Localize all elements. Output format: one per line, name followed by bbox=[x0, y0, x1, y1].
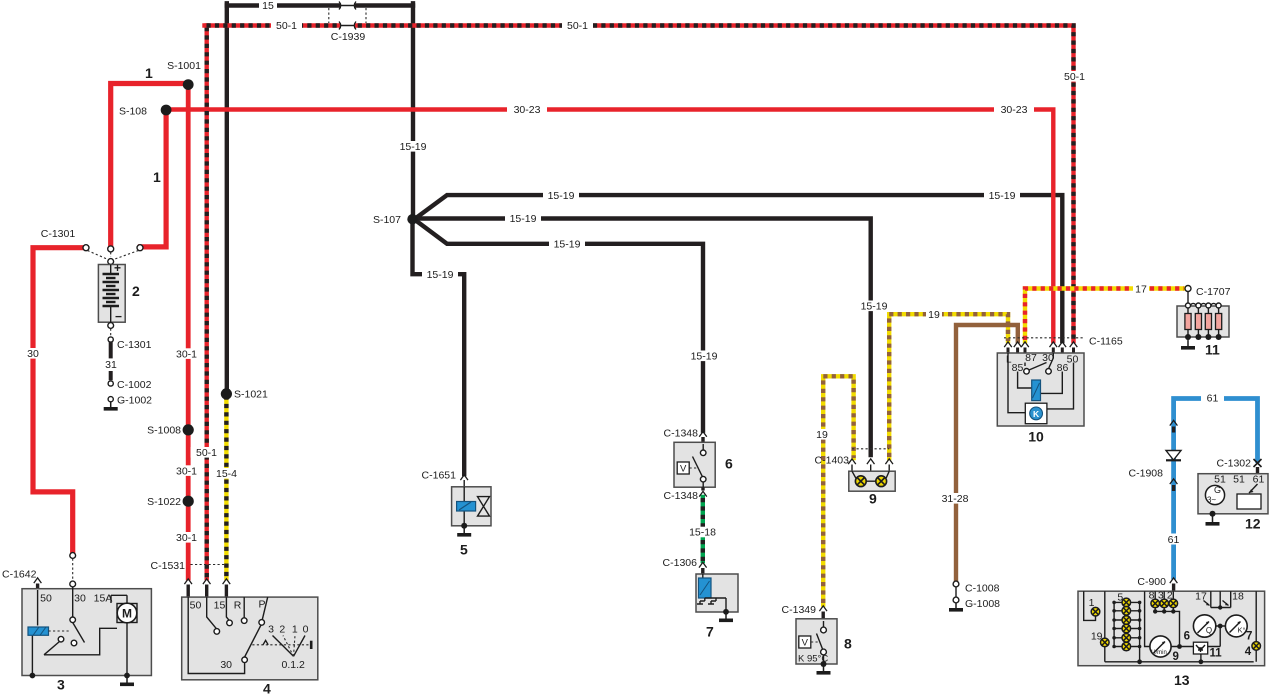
svg-text:C-1348: C-1348 bbox=[664, 428, 699, 440]
svg-text:C-1707: C-1707 bbox=[1196, 286, 1231, 298]
svg-text:S-1001: S-1001 bbox=[167, 60, 201, 72]
svg-text:30: 30 bbox=[74, 593, 86, 605]
svg-text:G: G bbox=[1214, 485, 1221, 495]
svg-text:G-1002: G-1002 bbox=[117, 395, 152, 407]
svg-text:C-1165: C-1165 bbox=[1089, 336, 1123, 348]
svg-text:13: 13 bbox=[1174, 672, 1190, 688]
svg-text:1: 1 bbox=[1089, 597, 1095, 609]
svg-text:S-1022: S-1022 bbox=[147, 496, 181, 508]
svg-text:C-1348: C-1348 bbox=[664, 490, 699, 502]
svg-text:3: 3 bbox=[1158, 589, 1164, 601]
svg-text:V: V bbox=[802, 638, 809, 649]
svg-text:11: 11 bbox=[1205, 342, 1220, 358]
svg-text:6: 6 bbox=[725, 456, 733, 472]
svg-text:K°: K° bbox=[1237, 626, 1245, 635]
svg-text:4: 4 bbox=[1245, 646, 1252, 658]
svg-text:8: 8 bbox=[844, 636, 852, 652]
svg-text:30: 30 bbox=[1042, 352, 1054, 364]
svg-text:C-1349: C-1349 bbox=[782, 604, 817, 616]
svg-text:C-1531: C-1531 bbox=[151, 560, 186, 572]
svg-text:6: 6 bbox=[1184, 631, 1190, 643]
svg-text:15-4: 15-4 bbox=[216, 468, 237, 480]
svg-text:18: 18 bbox=[1232, 591, 1244, 603]
svg-text:50-1: 50-1 bbox=[276, 20, 297, 32]
svg-text:Q: Q bbox=[1206, 626, 1212, 635]
svg-text:50: 50 bbox=[190, 600, 202, 612]
svg-text:C-1002: C-1002 bbox=[117, 379, 152, 391]
svg-text:0.1.2: 0.1.2 bbox=[282, 659, 306, 671]
svg-text:15-18: 15-18 bbox=[689, 527, 716, 539]
svg-text:30-1: 30-1 bbox=[176, 348, 197, 360]
svg-text:19: 19 bbox=[816, 429, 828, 441]
svg-text:15-19: 15-19 bbox=[691, 351, 718, 363]
svg-text:61: 61 bbox=[1207, 393, 1219, 405]
svg-text:15A: 15A bbox=[94, 593, 113, 605]
svg-text:1: 1 bbox=[292, 624, 298, 636]
svg-text:9: 9 bbox=[869, 491, 877, 507]
svg-text:11: 11 bbox=[1210, 648, 1223, 660]
svg-text:1: 1 bbox=[145, 65, 153, 81]
svg-text:15-19: 15-19 bbox=[510, 213, 537, 225]
svg-text:S-1021: S-1021 bbox=[234, 389, 268, 401]
svg-text:2: 2 bbox=[279, 624, 285, 636]
svg-text:15: 15 bbox=[214, 600, 226, 612]
svg-text:15-19: 15-19 bbox=[427, 269, 454, 281]
svg-text:9: 9 bbox=[1173, 651, 1179, 663]
svg-text:C-1403: C-1403 bbox=[815, 455, 850, 467]
svg-text:87: 87 bbox=[1025, 352, 1037, 364]
svg-text:C-1302: C-1302 bbox=[1217, 458, 1252, 470]
svg-text:51: 51 bbox=[1233, 474, 1245, 486]
svg-text:17: 17 bbox=[1135, 283, 1147, 295]
svg-text:C-1642: C-1642 bbox=[2, 569, 37, 581]
svg-text:30: 30 bbox=[220, 659, 232, 671]
svg-text:19: 19 bbox=[1091, 631, 1103, 643]
svg-text:1: 1 bbox=[153, 169, 161, 185]
svg-text:C-1651: C-1651 bbox=[422, 470, 457, 482]
svg-text:15: 15 bbox=[262, 0, 274, 12]
svg-text:2: 2 bbox=[1167, 589, 1173, 601]
svg-text:15-19: 15-19 bbox=[554, 239, 581, 251]
svg-text:2: 2 bbox=[132, 283, 140, 299]
svg-text:30-1: 30-1 bbox=[176, 532, 197, 544]
svg-text:15-19: 15-19 bbox=[400, 141, 427, 153]
svg-text:30: 30 bbox=[27, 348, 39, 360]
svg-text:R: R bbox=[234, 600, 242, 612]
svg-text:12: 12 bbox=[1245, 516, 1261, 532]
svg-text:50-1: 50-1 bbox=[196, 447, 217, 459]
svg-text:V: V bbox=[680, 464, 687, 475]
svg-text:C-1008: C-1008 bbox=[965, 583, 1000, 595]
svg-text:K: K bbox=[1033, 409, 1040, 419]
svg-text:30-23: 30-23 bbox=[514, 104, 541, 116]
svg-text:15-19: 15-19 bbox=[989, 190, 1016, 202]
svg-text:31-28: 31-28 bbox=[942, 493, 969, 505]
svg-text:C-1301: C-1301 bbox=[41, 228, 76, 240]
svg-text:S-1008: S-1008 bbox=[147, 425, 181, 437]
svg-text:C-1908: C-1908 bbox=[1129, 468, 1164, 480]
svg-text:61: 61 bbox=[1253, 474, 1265, 486]
svg-text:S-108: S-108 bbox=[119, 106, 147, 118]
svg-text:3~: 3~ bbox=[1207, 496, 1216, 505]
svg-text:10: 10 bbox=[1028, 429, 1044, 445]
svg-text:7: 7 bbox=[706, 624, 714, 640]
svg-text:0: 0 bbox=[303, 624, 309, 636]
svg-text:G-1008: G-1008 bbox=[965, 598, 1000, 610]
svg-text:50-1: 50-1 bbox=[567, 20, 588, 32]
svg-text:−: − bbox=[115, 310, 122, 324]
svg-text:50: 50 bbox=[1067, 354, 1079, 366]
svg-text:15-19: 15-19 bbox=[861, 301, 888, 313]
svg-text:M: M bbox=[122, 607, 132, 621]
svg-text:8: 8 bbox=[1149, 589, 1155, 601]
svg-text:7: 7 bbox=[1246, 631, 1252, 643]
svg-text:50-1: 50-1 bbox=[1064, 71, 1085, 83]
svg-text:S-107: S-107 bbox=[373, 214, 401, 226]
svg-text:C-900: C-900 bbox=[1137, 576, 1166, 588]
svg-text:U/min: U/min bbox=[1151, 650, 1167, 656]
svg-text:5: 5 bbox=[460, 542, 468, 558]
svg-text:15-19: 15-19 bbox=[548, 190, 575, 202]
svg-text:4: 4 bbox=[263, 681, 271, 697]
svg-text:C-1306: C-1306 bbox=[663, 557, 698, 569]
svg-text:30-1: 30-1 bbox=[176, 465, 197, 477]
svg-text:C-1939: C-1939 bbox=[331, 31, 366, 43]
svg-text:3: 3 bbox=[57, 677, 65, 693]
svg-text:3: 3 bbox=[268, 624, 274, 636]
svg-text:61: 61 bbox=[1168, 534, 1180, 546]
svg-text:50: 50 bbox=[40, 593, 52, 605]
svg-text:17: 17 bbox=[1195, 591, 1207, 603]
svg-text:5: 5 bbox=[1117, 592, 1123, 604]
svg-text:C-1301: C-1301 bbox=[117, 339, 152, 351]
svg-text:19: 19 bbox=[928, 309, 940, 321]
svg-text:51: 51 bbox=[1214, 474, 1226, 486]
svg-text:30-23: 30-23 bbox=[1001, 104, 1028, 116]
svg-text:31: 31 bbox=[105, 359, 117, 371]
